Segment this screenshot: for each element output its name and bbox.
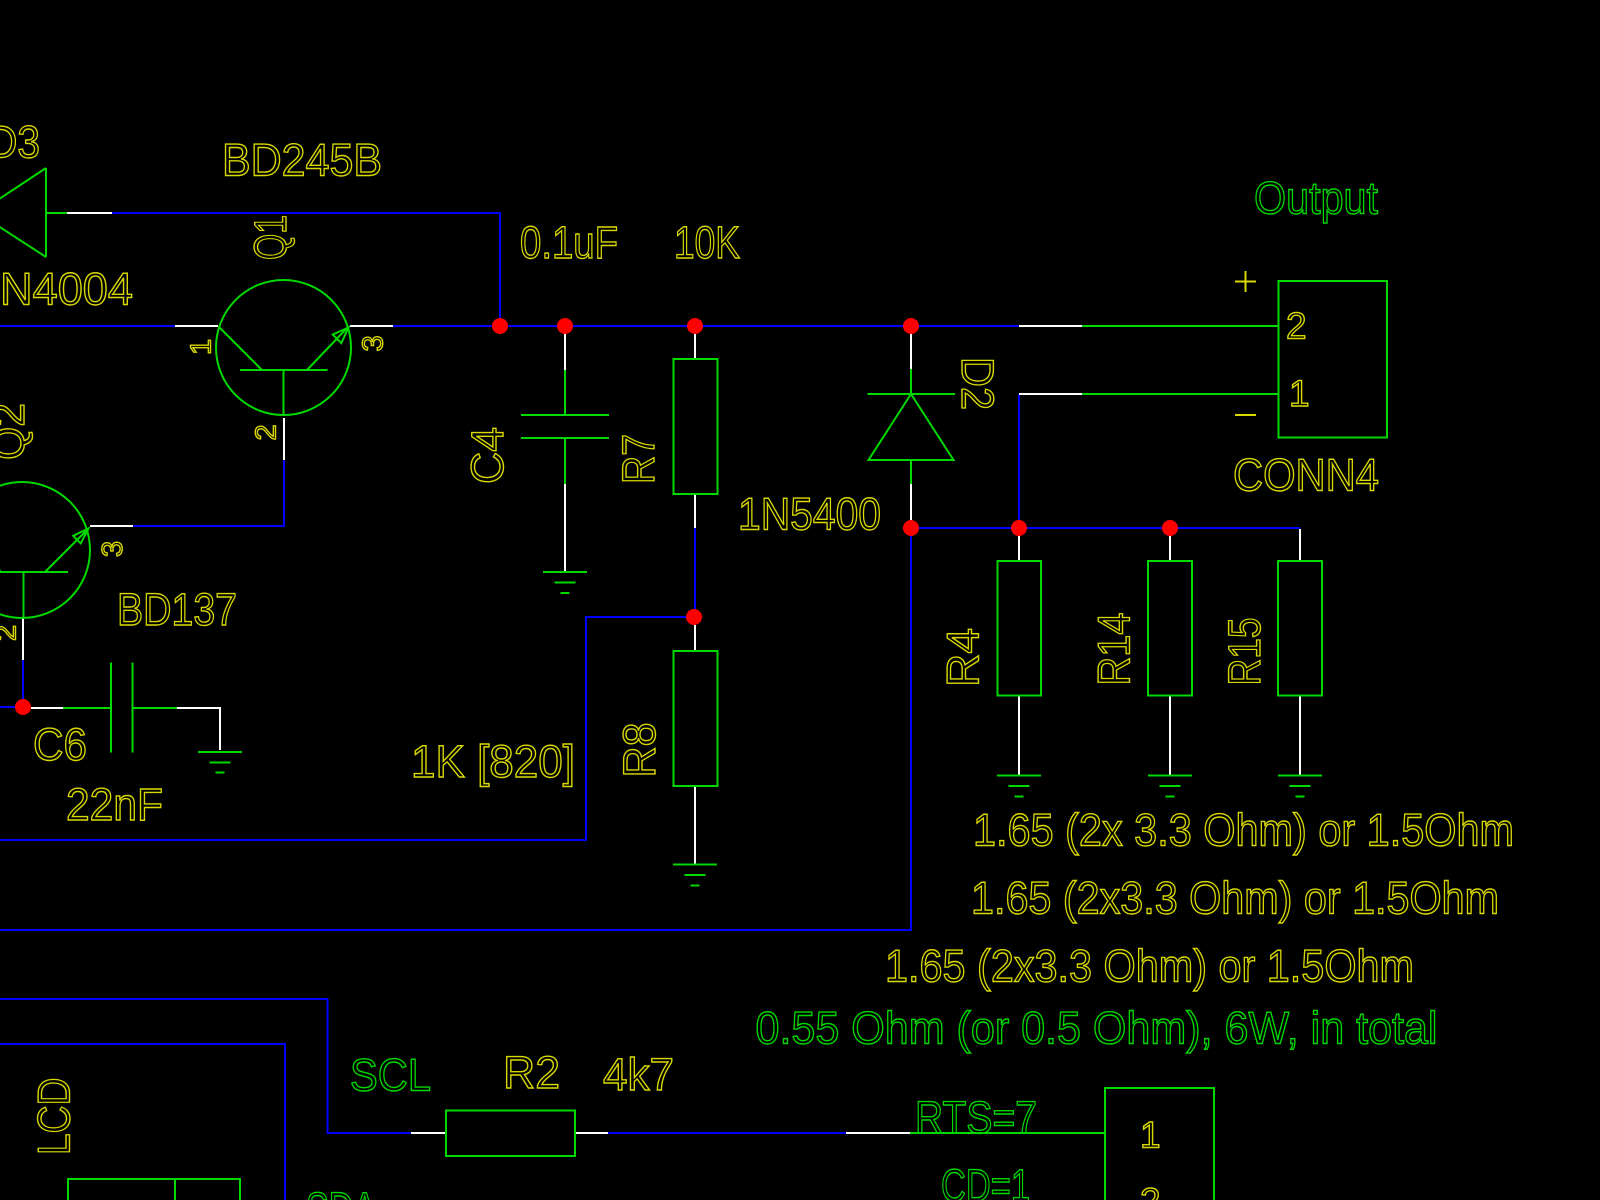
- resistor R2: [446, 1111, 575, 1157]
- svg-text:1N5400: 1N5400: [738, 489, 881, 540]
- svg-text:RTS=7: RTS=7: [915, 1092, 1037, 1143]
- resistor R15: [1278, 561, 1322, 696]
- svg-text:Output: Output: [1254, 173, 1378, 224]
- wire net into CONN4 pin2: [1082, 325, 1278, 327]
- pin lead R2 right: [575, 1132, 608, 1134]
- wire CONN4 pin1 down to R4 junction: [1018, 394, 1020, 528]
- svg-text:1.65 (2x3.3 Ohm) or 1.5Ohm: 1.65 (2x3.3 Ohm) or 1.5Ohm: [885, 941, 1414, 992]
- resistor R7: [674, 359, 718, 494]
- pin lead R14 top: [1169, 535, 1171, 561]
- svg-text:1: 1: [1289, 373, 1310, 414]
- svg-text:R2: R2: [503, 1047, 560, 1098]
- pin lead R15 top: [1299, 529, 1301, 561]
- minus sign CONN4: [1235, 414, 1256, 416]
- LCD box: [68, 1179, 240, 1200]
- pin lead R4 top: [1018, 535, 1020, 561]
- svg-text:R15: R15: [1219, 618, 1270, 686]
- pin lead D2 top: [910, 332, 912, 369]
- pin lead R7 bottom: [694, 494, 696, 528]
- svg-text:D2: D2: [952, 357, 1003, 410]
- resistor R4: [998, 561, 1042, 696]
- pin lead Q1 pin2: [283, 418, 285, 460]
- svg-text:N4004: N4004: [0, 264, 133, 315]
- wire SCL net from left: [0, 999, 411, 1133]
- wire RTS=7 net green: [910, 1132, 1105, 1134]
- svg-text:R7: R7: [613, 434, 664, 484]
- svg-text:LCD: LCD: [29, 1078, 80, 1156]
- pin lead Q1 pin3: [350, 325, 393, 327]
- resistor R8: [674, 651, 718, 786]
- svg-text:SDA: SDA: [306, 1183, 376, 1200]
- svg-text:2: 2: [0, 625, 23, 641]
- svg-text:4k7: 4k7: [603, 1049, 674, 1100]
- svg-text:0.1uF: 0.1uF: [520, 217, 618, 268]
- wire Q1 pin3 to CONN4 row: [393, 325, 1019, 327]
- junction C4 top: [557, 318, 573, 334]
- pin lead C4 bottom to ground: [564, 484, 566, 571]
- diode D2 (1N5400): [868, 394, 956, 460]
- pin lead D2 bottom: [910, 484, 912, 521]
- svg-text:1K [820]: 1K [820]: [411, 736, 575, 787]
- wire SDA net from left down: [0, 1044, 285, 1200]
- pin lead D3 anode white: [67, 212, 112, 214]
- svg-text:D3: D3: [0, 117, 40, 168]
- pin lead CONN4 pin2: [1019, 325, 1082, 327]
- svg-text:1.65 (2x3.3 Ohm) or 1.5Ohm: 1.65 (2x3.3 Ohm) or 1.5Ohm: [971, 873, 1499, 924]
- wire D3 to node A corner: [112, 213, 500, 326]
- svg-text:BD137: BD137: [117, 584, 237, 635]
- pin lead Q2 pin3: [90, 525, 133, 527]
- junction R7 top: [687, 318, 703, 334]
- wire stub D2 top: [910, 369, 912, 394]
- wire stub C6 left: [63, 707, 111, 709]
- svg-text:0.55 Ohm (or 0.5 Ohm), 6W, in: 0.55 Ohm (or 0.5 Ohm), 6W, in total: [756, 1003, 1438, 1054]
- svg-text:3: 3: [358, 335, 390, 351]
- pin lead R4 bottom: [1018, 695, 1020, 775]
- svg-text:2: 2: [1140, 1181, 1161, 1200]
- pin lead R2 left: [411, 1132, 446, 1134]
- svg-text:C6: C6: [33, 719, 87, 770]
- svg-text:CONN4: CONN4: [1233, 450, 1379, 501]
- svg-text:2: 2: [251, 424, 283, 440]
- svg-text:3: 3: [97, 541, 129, 557]
- pin lead R8 top: [694, 625, 696, 651]
- pin lead R7 top: [694, 334, 696, 359]
- pin lead C4 top: [564, 332, 566, 370]
- junction D2 top: [903, 318, 919, 334]
- ground R15: [1278, 776, 1322, 797]
- svg-text:Q1: Q1: [245, 215, 296, 260]
- ground C6: [198, 752, 242, 773]
- wire stub D3 anode green: [46, 212, 67, 214]
- junction R14 top: [1162, 520, 1178, 536]
- wire Q2 pin2 to junction: [0, 660, 23, 707]
- junction D2 bottom: [903, 520, 919, 536]
- wire R2 right to RTS: [608, 1132, 846, 1134]
- svg-text:R8: R8: [614, 723, 665, 778]
- connector bottom (serial): [1105, 1088, 1214, 1200]
- svg-text:SCL: SCL: [350, 1050, 431, 1101]
- pin lead RTS wire white: [846, 1132, 910, 1134]
- svg-text:Q2: Q2: [0, 403, 34, 460]
- ground R4: [997, 776, 1041, 797]
- ground R8: [673, 865, 717, 886]
- svg-text:R4: R4: [938, 628, 989, 687]
- ground C4: [543, 572, 587, 593]
- resistor R14: [1148, 561, 1192, 696]
- junction R4 top: [1011, 520, 1027, 536]
- svg-text:22nF: 22nF: [66, 779, 163, 830]
- svg-text:2: 2: [1286, 306, 1307, 347]
- pin lead Q2 pin2: [22, 618, 24, 660]
- wire net into CONN4 pin1: [1082, 393, 1278, 395]
- wire stub C6 right: [133, 707, 177, 709]
- svg-text:1: 1: [186, 339, 218, 355]
- wire D2 junction down to y930 rail: [0, 528, 911, 930]
- wire stub D2 bottom: [910, 460, 912, 484]
- svg-text:10K: 10K: [674, 217, 740, 268]
- plus sign CONN4: [1235, 271, 1256, 292]
- capacitor C6: [111, 663, 133, 753]
- transistor Q2 BD137: [0, 482, 90, 618]
- junction Q2/C6: [15, 699, 31, 715]
- wire left rail to Q1 pin1: [0, 325, 175, 327]
- pin lead R14 bottom: [1169, 695, 1171, 775]
- wire stub C4 bottom: [564, 438, 566, 484]
- connector CONN4: [1279, 281, 1388, 438]
- wire D2 cathode rail y528: [911, 527, 1300, 529]
- svg-text:1: 1: [1140, 1114, 1161, 1155]
- wire feedback tap left and down to y840 rail: [0, 617, 695, 840]
- pin lead CONN4 pin1: [1019, 393, 1082, 395]
- svg-text:BD245B: BD245B: [222, 135, 382, 186]
- ground R14: [1148, 776, 1192, 797]
- wire R7 bottom to R8 junction: [694, 528, 696, 617]
- junction node A: [492, 318, 508, 334]
- wire stub C4 top: [564, 370, 566, 415]
- pin lead C6 left: [31, 707, 63, 709]
- capacitor C4: [521, 415, 609, 438]
- diode D3 (1N4004): [0, 168, 46, 257]
- junction R7/R8 tap: [686, 609, 702, 625]
- pin lead R15 bottom: [1299, 695, 1301, 775]
- transistor Q1 BD245B: [216, 280, 351, 415]
- pin lead R8 bottom: [694, 786, 696, 864]
- pin lead Q1 pin1: [175, 325, 218, 327]
- wire Q1 pin2 down-left to Q2 pin3: [133, 460, 284, 526]
- svg-text:C4: C4: [462, 427, 513, 484]
- svg-text:CD=1: CD=1: [941, 1160, 1030, 1200]
- svg-text:R14: R14: [1089, 613, 1140, 686]
- pin lead C6 right to ground: [177, 708, 220, 750]
- svg-text:1.65 (2x 3.3 Ohm) or 1.5Ohm: 1.65 (2x 3.3 Ohm) or 1.5Ohm: [973, 805, 1514, 856]
